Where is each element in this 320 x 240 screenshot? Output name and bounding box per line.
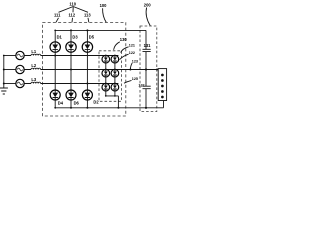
svg-text:D6: D6 xyxy=(74,101,80,106)
node leg2-botrail xyxy=(70,107,72,109)
diode D4 (bottom leg 1) xyxy=(50,90,64,106)
diode D3 (top leg 2) xyxy=(66,35,79,53)
node bus-phase3 xyxy=(3,83,5,85)
node leg2-toprail xyxy=(70,29,72,31)
svg-text:110: 110 xyxy=(69,1,76,6)
ground xyxy=(0,88,8,94)
wire phase 2 xyxy=(24,69,158,71)
node bus-phase1 xyxy=(3,55,5,57)
diode 122 (clamp row 1 col 2) xyxy=(111,55,119,71)
svg-text:123: 123 xyxy=(132,60,138,64)
wire phase 1 left stub xyxy=(4,55,16,57)
wire DC-link string xyxy=(145,30,147,107)
node leg2-phase xyxy=(70,69,72,71)
diode 125 (clamp row 3 col 1) xyxy=(102,83,110,97)
node cap-mid xyxy=(145,68,147,70)
svg-text:D3: D3 xyxy=(72,35,78,40)
diode 123 (clamp row 2 col 1) xyxy=(102,69,110,85)
node bus-phase2 xyxy=(3,69,5,71)
svg-text:111: 111 xyxy=(54,13,61,18)
wire left bus xyxy=(3,56,5,89)
wire phase 3 xyxy=(24,83,118,85)
wire top DC rail xyxy=(54,30,56,32)
sub dashed box 130 xyxy=(99,51,122,102)
AC source V1 xyxy=(16,51,24,59)
leader 112 xyxy=(71,18,74,23)
svg-text:D4: D4 xyxy=(58,101,64,106)
AC source V3 xyxy=(16,79,24,87)
svg-text:131: 131 xyxy=(144,43,152,48)
wire leg 3 vertical xyxy=(86,30,88,107)
wire phase 1 xyxy=(24,55,118,57)
node leg3-phase xyxy=(86,83,88,85)
svg-text:D5: D5 xyxy=(89,35,95,40)
svg-text:132: 132 xyxy=(138,83,144,87)
leader 111 xyxy=(56,18,59,23)
diode D5 (top leg 3) xyxy=(82,35,95,53)
leader 100 xyxy=(103,8,107,22)
svg-text:200: 200 xyxy=(144,2,152,7)
svg-text:113: 113 xyxy=(84,13,91,18)
svg-text:D2: D2 xyxy=(93,100,99,105)
wire phase 3 left stub xyxy=(4,83,16,85)
leader 125 xyxy=(124,80,132,83)
wire clamp chain bottom xyxy=(106,96,119,108)
svg-text:D1: D1 xyxy=(57,35,63,40)
svg-text:100: 100 xyxy=(100,3,108,8)
diode D2 (bottom leg 3) xyxy=(82,90,99,105)
battery load box xyxy=(158,69,166,101)
inductor L2 xyxy=(31,63,41,69)
svg-text:121: 121 xyxy=(129,44,135,48)
wire load bottom xyxy=(163,101,165,108)
node cap-botrail xyxy=(145,107,147,109)
diode 121 (clamp row 1 col 1) xyxy=(102,55,110,71)
node leg1-phase xyxy=(54,55,56,57)
diode D1 (top leg 1) xyxy=(50,35,63,53)
svg-text:112: 112 xyxy=(69,13,76,18)
leader 121 xyxy=(121,47,129,53)
node leg3-toprail xyxy=(86,29,88,31)
dashed box 200 xyxy=(140,26,157,112)
node leg3-botrail xyxy=(86,107,88,109)
wire phase 2 left stub xyxy=(4,69,16,71)
node load-mid xyxy=(156,69,158,71)
svg-text:L2: L2 xyxy=(31,63,37,68)
main dashed box 100 xyxy=(43,23,126,117)
node chain-botrail xyxy=(117,107,119,109)
svg-text:122: 122 xyxy=(129,51,135,55)
leader 110 fan xyxy=(59,7,89,13)
svg-text:130: 130 xyxy=(120,37,128,42)
diode 126 (clamp row 3 col 2) xyxy=(111,83,119,97)
diode 124 (clamp row 2 col 2) xyxy=(111,69,119,85)
diode D6 (bottom leg 2) xyxy=(66,90,80,106)
capacitor 132 xyxy=(138,83,150,88)
leader 113 xyxy=(87,18,90,23)
svg-text:125: 125 xyxy=(132,77,138,81)
inductor L1 xyxy=(31,49,41,55)
svg-text:L1: L1 xyxy=(31,49,37,54)
leader 122 xyxy=(120,54,129,59)
wire leg 1 vertical xyxy=(54,30,56,107)
leader 130 xyxy=(114,42,120,50)
capacitor 131 xyxy=(143,43,152,51)
wire bottom DC rail xyxy=(54,107,56,109)
leader 200 xyxy=(146,8,150,26)
inductor L3 xyxy=(31,77,41,83)
svg-text:L3: L3 xyxy=(31,77,37,82)
wire leg 2 vertical xyxy=(70,30,72,107)
leader 123 xyxy=(130,63,132,69)
AC source V2 xyxy=(16,65,24,73)
